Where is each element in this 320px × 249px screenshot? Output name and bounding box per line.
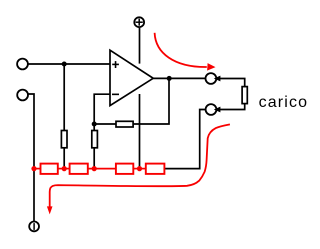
svg-text:carico: carico <box>259 94 309 111</box>
